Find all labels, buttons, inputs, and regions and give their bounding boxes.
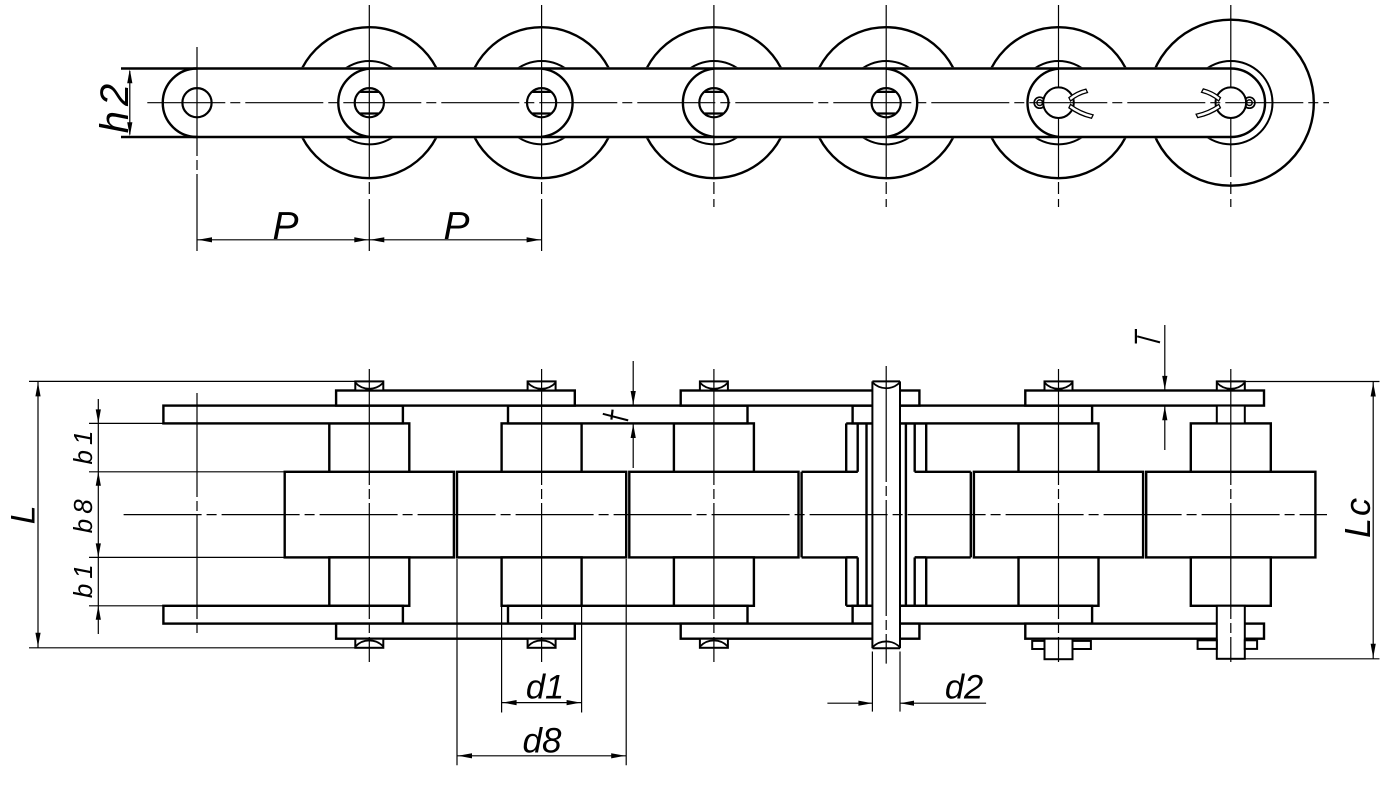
svg-text:b8: b8 (68, 494, 98, 533)
svg-text:P: P (443, 205, 469, 248)
svg-text:L: L (5, 505, 43, 524)
svg-text:d2: d2 (945, 669, 983, 707)
svg-text:Lc: Lc (1337, 496, 1378, 538)
svg-text:d1: d1 (526, 669, 564, 707)
svg-text:b1: b1 (68, 426, 98, 465)
svg-text:d8: d8 (523, 722, 562, 761)
svg-text:h2: h2 (93, 79, 137, 134)
svg-text:b1: b1 (68, 559, 98, 598)
svg-text:P: P (272, 205, 298, 248)
